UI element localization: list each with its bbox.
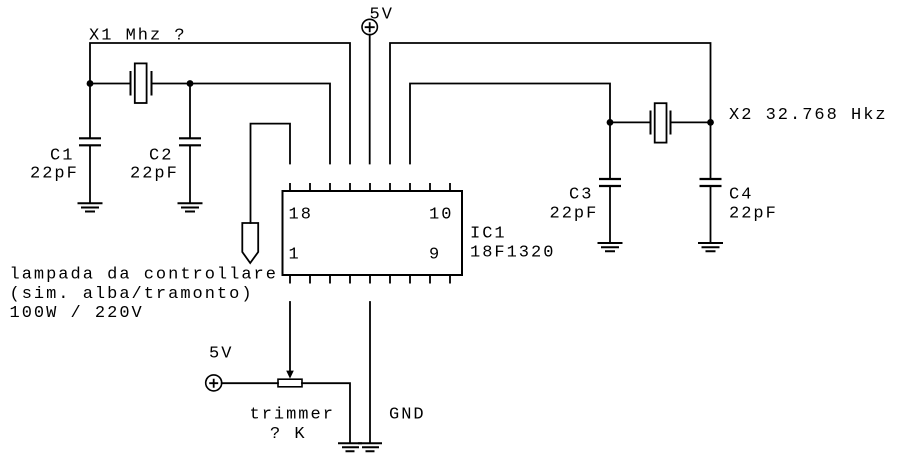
svg-text:trimmer: trimmer — [250, 406, 335, 425]
ground (trimmer) — [338, 443, 362, 451]
svg-text:5V: 5V — [370, 6, 394, 25]
svg-text:lampada da controllare: lampada da controllare — [10, 266, 278, 285]
svg-text:5V: 5V — [209, 344, 233, 363]
svg-text:22pF: 22pF — [729, 204, 778, 223]
IC U1 bottom pins (1..9) — [290, 275, 450, 284]
capacitor C4 — [700, 179, 722, 186]
svg-text:10: 10 — [429, 205, 453, 224]
wire: 5V stem from power symbol down to pin 14 — [369, 35, 371, 164]
svg-text:18F1320: 18F1320 — [470, 244, 555, 263]
svg-text:C3: C3 — [569, 185, 593, 204]
node A junction dot — [87, 80, 94, 87]
ground (C2) — [178, 203, 203, 211]
ground (C4) — [698, 243, 723, 251]
wire: C3 bottom to ground — [609, 187, 611, 243]
svg-text:C1: C1 — [50, 147, 74, 166]
lamp connector terminal — [242, 223, 258, 263]
wire: C2 bottom to ground — [189, 146, 191, 203]
wire: pin 5 GND down to ground — [369, 302, 371, 443]
wire: pin 1 down to trimmer wiper arrow — [289, 302, 291, 371]
capacitor C1 — [79, 138, 101, 145]
wire: C4 bottom to ground — [710, 187, 712, 243]
power symbol 5V bottom — [206, 375, 222, 391]
ground (GND pin) — [358, 443, 382, 451]
crystal X2 — [651, 103, 671, 142]
node C junction dot — [607, 119, 614, 126]
wire: node A down to C1 top — [89, 84, 91, 139]
wire: second right rail (pin12 up, right, down to X2 node C) — [410, 84, 610, 164]
wire: X2 right plate to node D — [671, 121, 711, 123]
svg-text:22pF: 22pF — [30, 165, 79, 184]
svg-text:GND: GND — [389, 406, 426, 425]
IC U1 top pins (18..10) — [290, 183, 450, 191]
wire: left 5V top rail (pin15 up to rail, left, down to X1 node A) — [90, 43, 350, 164]
capacitor C3 — [599, 179, 621, 186]
power symbol 5V top — [362, 19, 377, 34]
wire: right 5V top rail (pin13 up, right, down to X2 node D) — [390, 43, 711, 164]
svg-text:X2 32.768 Hkz: X2 32.768 Hkz — [729, 106, 888, 125]
svg-text:100W / 220V: 100W / 220V — [10, 304, 144, 323]
svg-text:(sim. alba/tramonto): (sim. alba/tramonto) — [10, 285, 254, 304]
svg-text:9: 9 — [429, 245, 441, 264]
wire: node A to X1 left plate — [90, 83, 131, 85]
svg-text:X1 Mhz ?: X1 Mhz ? — [89, 27, 187, 46]
trimmer RV1 body — [278, 379, 302, 387]
wire: node C to X2 left plate — [610, 121, 651, 123]
node D junction dot — [707, 119, 714, 126]
svg-text:1: 1 — [289, 245, 301, 264]
crystal X1 — [131, 63, 152, 103]
svg-text:22pF: 22pF — [550, 204, 599, 223]
IC U1 body — [283, 191, 463, 275]
wire: node D down to C4 top — [710, 122, 712, 178]
svg-text:IC1: IC1 — [470, 225, 507, 244]
svg-text:C4: C4 — [729, 185, 753, 204]
svg-text:? K: ? K — [270, 425, 307, 444]
wire: C1 bottom to ground — [89, 146, 91, 203]
svg-text:22pF: 22pF — [130, 165, 179, 184]
wire: node B down to C2 top — [189, 84, 191, 139]
node B junction dot — [187, 80, 194, 87]
trimmer wiper arrowhead — [286, 371, 294, 379]
wire: pin 18 up, left, down to lamp connector — [251, 124, 291, 223]
capacitor C2 — [179, 138, 201, 145]
ground (C1) — [78, 203, 103, 211]
wire: 5V bottom symbol to trimmer left — [222, 382, 278, 384]
wire: X1 right plate to node B, then to pin 16 — [152, 84, 331, 164]
svg-text:18: 18 — [289, 205, 313, 224]
wire: trimmer right to ground — [302, 383, 350, 443]
wire: node C down to C3 top — [609, 122, 611, 178]
ground (C3) — [598, 243, 623, 251]
svg-text:C2: C2 — [149, 147, 173, 166]
